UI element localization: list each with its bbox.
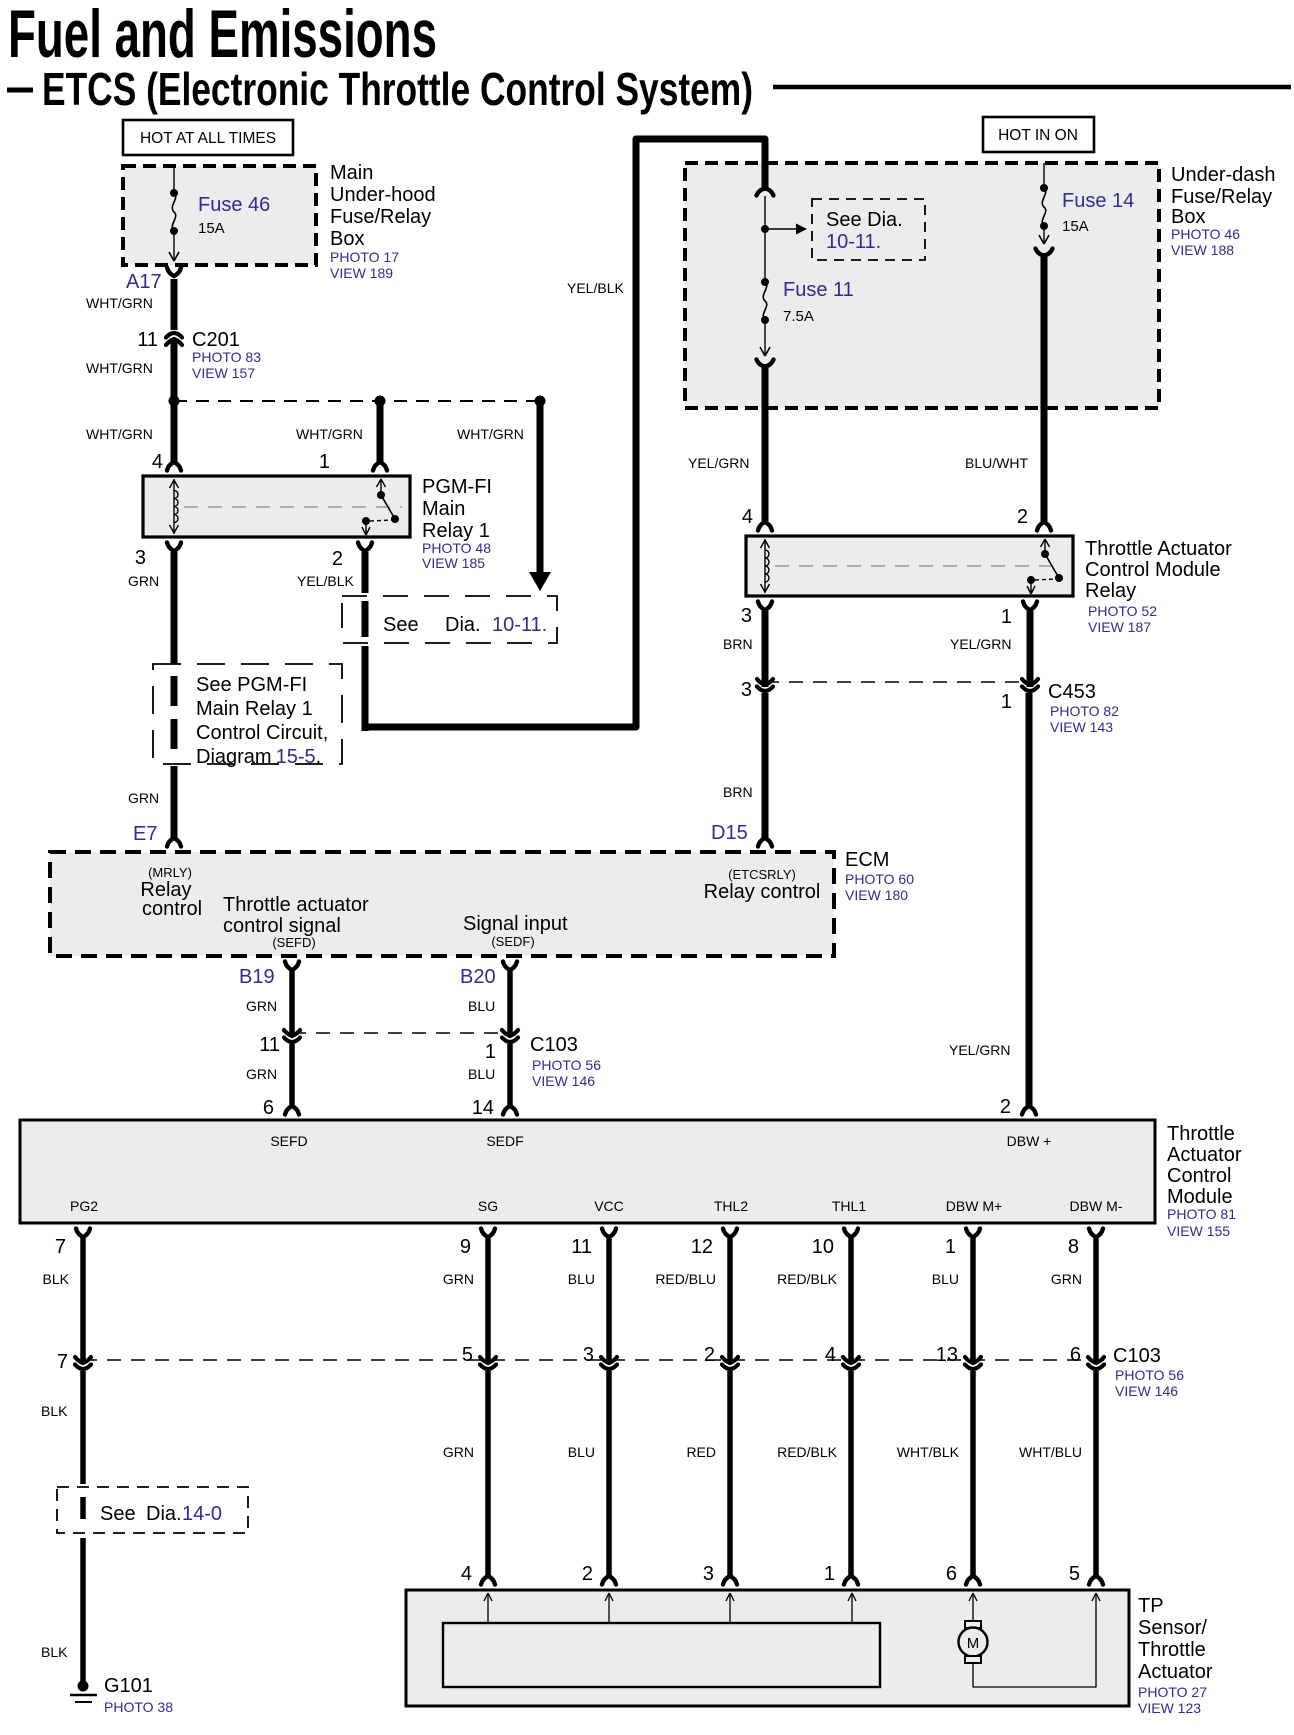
wire BLU C103 to TP actuator pin 2 <box>568 1371 616 1585</box>
connector C103 lower pin 2 <box>704 1344 738 1369</box>
relay K2 switch <box>1027 539 1063 594</box>
wire RED C103 to TP actuator pin 3 <box>686 1371 737 1585</box>
svg-text:Main Relay 1: Main Relay 1 <box>196 698 313 720</box>
svg-text:TP: TP <box>1138 1595 1164 1617</box>
svg-text:YEL/GRN: YEL/GRN <box>950 636 1011 652</box>
svg-text:BLU: BLU <box>468 998 495 1014</box>
svg-text:GRN: GRN <box>246 1066 277 1082</box>
svg-text:BLU: BLU <box>932 1271 959 1287</box>
wire BLK to ground G101 <box>41 1538 83 1682</box>
wire WHT/GRN A17 to C201 <box>86 279 174 330</box>
svg-text:10-11.: 10-11. <box>492 614 547 636</box>
svg-text:PHOTO 83: PHOTO 83 <box>192 349 261 365</box>
svg-text:See: See <box>100 1503 136 1525</box>
svg-text:VIEW 189: VIEW 189 <box>330 265 393 281</box>
junction node 2 <box>375 396 386 407</box>
svg-text:Module: Module <box>1167 1186 1233 1208</box>
svg-text:Actuator: Actuator <box>1138 1661 1213 1683</box>
svg-text:VIEW 146: VIEW 146 <box>1115 1383 1178 1399</box>
svg-text:1: 1 <box>824 1563 835 1585</box>
wire BLU C103 to module SEDF pin 14 <box>468 1044 517 1119</box>
relay K1 dashed centerline <box>184 506 402 508</box>
svg-text:15A: 15A <box>198 220 225 237</box>
svg-text:Throttle: Throttle <box>1167 1123 1235 1145</box>
connector C103 pin 1 <box>485 1030 601 1089</box>
svg-text:Main: Main <box>422 498 465 520</box>
See PGM-FI Main Relay 1 Control Circuit reference box <box>153 664 342 768</box>
See Dia. 10-11. reference box (under-dash) <box>812 199 925 260</box>
svg-text:Throttle Actuator: Throttle Actuator <box>1085 538 1232 560</box>
svg-text:HOT AT ALL TIMES: HOT AT ALL TIMES <box>140 130 276 147</box>
svg-text:SG: SG <box>478 1198 498 1214</box>
svg-text:C453: C453 <box>1048 681 1096 703</box>
svg-text:(SEDF): (SEDF) <box>491 934 534 949</box>
svg-text:Control Circuit,: Control Circuit, <box>196 722 328 744</box>
svg-text:PHOTO 38: PHOTO 38 <box>104 1699 173 1715</box>
svg-text:VIEW 185: VIEW 185 <box>422 555 485 571</box>
svg-text:Fuse 14: Fuse 14 <box>1062 190 1134 212</box>
relay K1 pin 2 <box>297 543 372 590</box>
svg-text:PHOTO 46: PHOTO 46 <box>1171 226 1240 242</box>
svg-text:M: M <box>967 1635 980 1652</box>
svg-text:2: 2 <box>332 548 343 570</box>
connector C103 lower pin 7 <box>57 1351 91 1373</box>
svg-text:Box: Box <box>330 228 364 250</box>
main under-hood fuse/relay box <box>123 162 436 281</box>
connector C103 lower dashed row <box>83 1345 1184 1399</box>
fuse 11 tap to See Dia 10-11 <box>761 196 807 235</box>
module pin 11 VCC wire BLU to C103 <box>568 1229 616 1365</box>
svg-text:RED/BLU: RED/BLU <box>655 1271 716 1287</box>
svg-text:Control Module: Control Module <box>1085 559 1221 581</box>
module pin 7 PG2 wire BLK to C103 <box>43 1229 90 1365</box>
svg-text:YEL/GRN: YEL/GRN <box>949 1042 1010 1058</box>
svg-text:PHOTO 56: PHOTO 56 <box>532 1057 601 1073</box>
connector C103 pin 11 <box>259 1030 300 1056</box>
svg-text:WHT/GRN: WHT/GRN <box>457 426 524 442</box>
wire GRN C103 to TP actuator pin 4 <box>443 1371 495 1585</box>
relay K1 coil <box>170 479 179 534</box>
throttle actuator control module box <box>20 1120 1242 1239</box>
svg-text:11: 11 <box>259 1034 280 1056</box>
svg-text:3: 3 <box>135 547 146 569</box>
svg-text:PHOTO 17: PHOTO 17 <box>330 249 399 265</box>
connector C103 lower pin 5 <box>462 1344 496 1369</box>
svg-text:BLK: BLK <box>41 1403 68 1419</box>
svg-text:Fuse 11: Fuse 11 <box>783 279 854 301</box>
connector C103 lower pin 13 <box>936 1344 981 1369</box>
svg-text:THL2: THL2 <box>714 1198 748 1214</box>
svg-text:DBW M+: DBW M+ <box>946 1198 1002 1214</box>
svg-text:11: 11 <box>571 1236 592 1258</box>
module pin 12 THL2 wire RED/BLU to C103 <box>655 1229 737 1365</box>
svg-text:VIEW 123: VIEW 123 <box>1138 1700 1201 1716</box>
svg-text:2: 2 <box>1017 506 1028 528</box>
svg-text:BLU/WHT: BLU/WHT <box>965 455 1028 471</box>
svg-text:WHT/BLU: WHT/BLU <box>1019 1444 1082 1460</box>
svg-text:PHOTO 27: PHOTO 27 <box>1138 1684 1207 1700</box>
under-dash fuse/relay box <box>685 163 1276 408</box>
relay K2 pin 1 <box>950 602 1037 653</box>
wire YEL/BLK relay K1 pin2 loop to under-dash box <box>365 139 765 731</box>
svg-text:WHT/BLK: WHT/BLK <box>897 1444 960 1460</box>
svg-text:(MRLY): (MRLY) <box>148 865 192 880</box>
svg-text:VIEW 157: VIEW 157 <box>192 365 255 381</box>
svg-text:7: 7 <box>55 1236 66 1258</box>
svg-text:Main: Main <box>330 162 373 184</box>
module pin 1 DBW M+ wire BLU to C103 <box>932 1229 980 1365</box>
svg-text:SEDF: SEDF <box>486 1133 523 1149</box>
svg-text:Relay 1: Relay 1 <box>422 520 490 542</box>
relay K2 Throttle Actuator Control Module Relay box <box>746 536 1232 635</box>
svg-text:VIEW 187: VIEW 187 <box>1088 619 1151 635</box>
svg-text:GRN: GRN <box>1051 1271 1082 1287</box>
svg-text:VIEW 146: VIEW 146 <box>532 1073 595 1089</box>
svg-text:VIEW 180: VIEW 180 <box>845 887 908 903</box>
TP sensor arrow pin 3 <box>726 1593 734 1623</box>
svg-text:14: 14 <box>472 1097 494 1119</box>
svg-text:Diagram15-5.: Diagram15-5. <box>196 746 321 768</box>
svg-text:PHOTO 82: PHOTO 82 <box>1050 703 1119 719</box>
wire WHT/GRN junction to relay K1 pin 4 <box>86 401 181 473</box>
module pin 10 THL1 wire RED/BLK to C103 <box>777 1229 858 1365</box>
svg-text:(SEFD): (SEFD) <box>272 935 315 950</box>
svg-text:4: 4 <box>152 451 163 473</box>
svg-text:PG2: PG2 <box>70 1198 98 1214</box>
svg-text:1: 1 <box>945 1236 956 1258</box>
svg-text:12: 12 <box>691 1236 713 1258</box>
svg-text:15A: 15A <box>1062 218 1089 235</box>
module pin 8 DBW M- wire GRN to C103 <box>1051 1229 1103 1365</box>
fuse 46 (15A) <box>169 166 270 261</box>
wire WHT/BLU C103 to TP actuator pin 5 <box>1019 1371 1103 1585</box>
subtitle ETCS <box>7 63 753 115</box>
svg-text:D15: D15 <box>711 822 748 844</box>
svg-text:GRN: GRN <box>128 790 159 806</box>
svg-text:C103: C103 <box>530 1034 578 1056</box>
svg-text:GRN: GRN <box>128 573 159 589</box>
svg-text:DBW M-: DBW M- <box>1070 1198 1123 1214</box>
TP sensor / throttle actuator box <box>406 1590 1213 1716</box>
svg-text:Dia.: Dia. <box>445 614 481 636</box>
svg-text:VIEW 143: VIEW 143 <box>1050 719 1113 735</box>
svg-text:PHOTO 81: PHOTO 81 <box>1167 1206 1236 1222</box>
page title Fuel and Emissions <box>8 0 437 72</box>
connector C453 pin 3 <box>741 679 773 701</box>
svg-text:Relay: Relay <box>1085 580 1136 602</box>
svg-text:YEL/BLK: YEL/BLK <box>297 573 354 589</box>
svg-text:See: See <box>383 614 419 636</box>
wire BLK See Dia box segment <box>80 1497 86 1519</box>
wire GRN B19 to C103 pin 11 <box>246 971 292 1037</box>
node E7 <box>133 823 181 847</box>
wire BLU B20 to C103 pin 1 <box>468 971 510 1037</box>
node D15 <box>711 822 772 847</box>
connector C103 lower pin 3 <box>583 1344 617 1369</box>
svg-text:Control: Control <box>1167 1165 1231 1187</box>
fuse 11 (7.5A) <box>757 229 854 367</box>
svg-text:E7: E7 <box>133 823 157 845</box>
wire BLK C103 pin7 to See Dia 14-0 <box>41 1371 83 1484</box>
relay K1 switch <box>362 479 399 535</box>
relay K1 PGM-FI Main Relay 1 box <box>143 476 492 571</box>
svg-text:THL1: THL1 <box>832 1198 866 1214</box>
svg-text:BRN: BRN <box>723 636 753 652</box>
node B19 <box>239 962 299 989</box>
svg-text:GRN: GRN <box>246 998 277 1014</box>
svg-text:13: 13 <box>936 1344 958 1366</box>
See Dia. 14-0 reference box <box>57 1487 248 1533</box>
wire WHT/GRN junction to See Dia 10-11 arrow <box>457 401 551 591</box>
svg-text:2: 2 <box>704 1344 715 1366</box>
connector C103 upper dashed row <box>292 1032 510 1034</box>
svg-text:2: 2 <box>582 1563 593 1585</box>
svg-text:VIEW 155: VIEW 155 <box>1167 1223 1230 1239</box>
wire BRN C453 to ECM D15 <box>723 693 765 838</box>
svg-text:SEFD: SEFD <box>270 1133 307 1149</box>
TP sensor arrow pin 2 <box>605 1593 613 1623</box>
svg-text:HOT IN ON: HOT IN ON <box>998 127 1078 144</box>
svg-text:Sensor/: Sensor/ <box>1138 1617 1207 1639</box>
ECM box <box>50 849 914 956</box>
svg-text:Fuse/Relay: Fuse/Relay <box>330 206 431 228</box>
svg-text:5: 5 <box>1069 1563 1080 1585</box>
svg-text:14-0: 14-0 <box>182 1503 222 1525</box>
node A17 <box>126 268 181 294</box>
svg-text:See PGM-FI: See PGM-FI <box>196 674 307 696</box>
wire YEL/GRN relay K2 pin1 to C453 <box>1027 611 1034 687</box>
throttle actuator motor M1 <box>959 1593 988 1663</box>
TP sensor arrow pin 4 <box>484 1593 492 1623</box>
svg-text:BLU: BLU <box>568 1444 595 1460</box>
svg-text:3: 3 <box>741 605 752 627</box>
svg-text:PHOTO 48: PHOTO 48 <box>422 540 491 556</box>
svg-text:1: 1 <box>485 1041 496 1063</box>
connector C103 lower pin 4 <box>825 1344 859 1369</box>
connector C201 pin 11 <box>137 329 261 381</box>
svg-text:WHT/GRN: WHT/GRN <box>86 360 153 376</box>
svg-text:4: 4 <box>825 1344 836 1366</box>
svg-text:4: 4 <box>461 1563 472 1585</box>
svg-text:2: 2 <box>1000 1096 1011 1118</box>
relay K1 pin 3 <box>128 543 181 590</box>
svg-text:RED: RED <box>686 1444 716 1460</box>
svg-text:Fuel and Emissions: Fuel and Emissions <box>8 0 437 72</box>
svg-text:1: 1 <box>319 451 330 473</box>
svg-text:6: 6 <box>263 1097 274 1119</box>
svg-text:C201: C201 <box>192 329 240 351</box>
svg-text:B20: B20 <box>460 966 496 988</box>
label HOT AT ALL TIMES <box>123 120 293 155</box>
connector C453 dashed row <box>765 681 1030 683</box>
wire GRN relay K1 pin3 to ECM E7 <box>128 552 174 838</box>
svg-text:ETCS (Electronic Throttle Cont: ETCS (Electronic Throttle Control System… <box>42 63 753 115</box>
svg-text:GRN: GRN <box>443 1444 474 1460</box>
svg-text:WHT/GRN: WHT/GRN <box>86 295 153 311</box>
svg-text:Box: Box <box>1171 206 1205 228</box>
svg-text:3: 3 <box>703 1563 714 1585</box>
svg-text:C103: C103 <box>1113 1345 1161 1367</box>
svg-text:control signal: control signal <box>223 915 341 937</box>
svg-text:VIEW 188: VIEW 188 <box>1171 242 1234 258</box>
fuse 11 feed connector <box>757 189 774 196</box>
svg-text:BLK: BLK <box>43 1271 70 1287</box>
wire WHT/GRN junction to relay K1 pin 1 <box>296 401 387 473</box>
wire WHT/BLK C103 to TP actuator pin 6 <box>897 1371 980 1585</box>
svg-text:11: 11 <box>137 329 158 351</box>
wire BRN relay K2 pin3 to C453 <box>762 611 769 687</box>
svg-text:3: 3 <box>583 1344 594 1366</box>
svg-text:BLU: BLU <box>468 1066 495 1082</box>
svg-text:Throttle actuator: Throttle actuator <box>223 894 369 916</box>
svg-text:10: 10 <box>812 1236 834 1258</box>
wire YEL/GRN C453 to module DBW+ pin 2 <box>949 693 1036 1118</box>
svg-text:Dia.: Dia. <box>146 1503 182 1525</box>
svg-text:PHOTO 56: PHOTO 56 <box>1115 1367 1184 1383</box>
svg-text:Fuse/Relay: Fuse/Relay <box>1171 186 1272 208</box>
svg-text:8: 8 <box>1068 1236 1079 1258</box>
svg-text:B19: B19 <box>239 966 275 988</box>
svg-text:Fuse 46: Fuse 46 <box>198 194 270 216</box>
connector C453 pin 1 <box>1001 679 1119 735</box>
svg-text:DBW +: DBW + <box>1007 1133 1052 1149</box>
node B20 <box>460 962 517 989</box>
module pin 9 SG wire GRN to C103 <box>443 1229 495 1365</box>
svg-text:GRN: GRN <box>443 1271 474 1287</box>
motor return wire to pin 5 <box>973 1593 1100 1687</box>
relay K2 dashed centerline <box>775 565 1063 567</box>
svg-text:Under-hood: Under-hood <box>330 184 436 206</box>
svg-text:Actuator: Actuator <box>1167 1144 1242 1166</box>
svg-text:BRN: BRN <box>723 784 753 800</box>
relay K2 pin 3 <box>723 602 772 653</box>
svg-text:G101: G101 <box>104 1675 153 1697</box>
svg-text:VCC: VCC <box>594 1198 624 1214</box>
svg-text:BLK: BLK <box>41 1644 68 1660</box>
svg-text:A17: A17 <box>126 271 162 293</box>
svg-text:WHT/GRN: WHT/GRN <box>296 426 363 442</box>
wire WHT/GRN C201 to junction <box>86 339 174 401</box>
svg-text:Throttle: Throttle <box>1138 1639 1206 1661</box>
svg-text:Under-dash: Under-dash <box>1171 164 1276 186</box>
svg-text:PHOTO 52: PHOTO 52 <box>1088 603 1157 619</box>
connector C103 lower pin 6 <box>1070 1344 1104 1369</box>
svg-text:PGM-FI: PGM-FI <box>422 476 492 498</box>
svg-text:7: 7 <box>57 1351 68 1373</box>
svg-text:1: 1 <box>1001 606 1012 628</box>
svg-text:RED/BLK: RED/BLK <box>777 1271 838 1287</box>
wire YEL/GRN fuse 11 to relay K2 pin 4 <box>688 364 772 531</box>
svg-text:5: 5 <box>462 1344 473 1366</box>
svg-text:4: 4 <box>742 506 753 528</box>
svg-text:6: 6 <box>946 1563 957 1585</box>
svg-text:WHT/GRN: WHT/GRN <box>86 426 153 442</box>
svg-text:YEL/GRN: YEL/GRN <box>688 455 749 471</box>
svg-text:BLU: BLU <box>568 1271 595 1287</box>
wire RED/BLK C103 to TP actuator pin 1 <box>777 1371 858 1585</box>
wire BLU/WHT fuse 14 to relay K2 pin 2 <box>965 253 1051 531</box>
svg-text:(ETCSRLY): (ETCSRLY) <box>728 867 796 882</box>
TP sensor element box <box>443 1623 880 1687</box>
fuse 14 (15A) <box>1036 163 1135 256</box>
junction node 3 <box>535 396 546 407</box>
ground G101 <box>70 1675 173 1715</box>
svg-text:ECM: ECM <box>845 849 889 871</box>
relay K2 coil <box>761 539 770 593</box>
label HOT IN ON <box>983 117 1094 152</box>
svg-text:10-11.: 10-11. <box>826 231 881 253</box>
svg-text:See Dia.: See Dia. <box>826 209 903 231</box>
junction node 1 <box>169 396 180 407</box>
wire GRN C103 to module SEFD pin 6 <box>246 1044 299 1119</box>
svg-text:7.5A: 7.5A <box>783 308 814 325</box>
svg-text:YEL/BLK: YEL/BLK <box>567 280 624 296</box>
svg-text:1: 1 <box>1001 691 1012 713</box>
svg-text:control: control <box>142 898 202 920</box>
svg-text:RED/BLK: RED/BLK <box>777 1444 838 1460</box>
TP sensor arrow pin 1 <box>848 1593 856 1623</box>
svg-text:9: 9 <box>460 1236 471 1258</box>
svg-text:Signal input: Signal input <box>463 913 568 935</box>
subtitle rule <box>773 85 1291 90</box>
svg-text:Relay control: Relay control <box>704 881 821 903</box>
svg-text:3: 3 <box>741 679 752 701</box>
svg-text:6: 6 <box>1070 1344 1081 1366</box>
See Dia. 10-11. reference box (left) <box>342 596 557 643</box>
svg-text:PHOTO 60: PHOTO 60 <box>845 871 914 887</box>
junction bus dashed <box>174 400 540 402</box>
